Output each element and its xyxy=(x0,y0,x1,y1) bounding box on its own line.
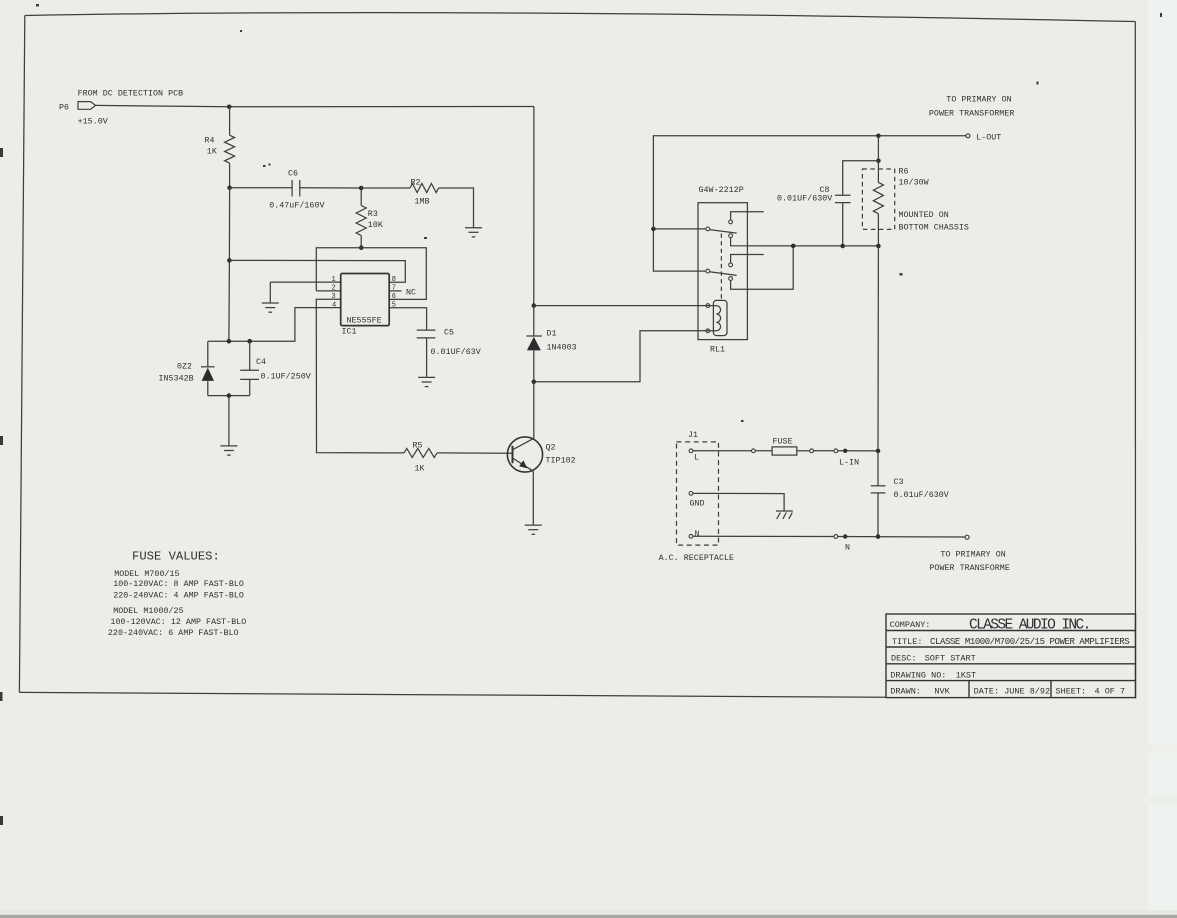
wire R3 to loop xyxy=(360,236,362,248)
wire pin2 stub xyxy=(316,290,340,292)
svg-text:C4: C4 xyxy=(256,358,266,367)
node C8 tap xyxy=(876,159,881,164)
wire C6 to R2/R3 node xyxy=(300,187,361,189)
diode D1 1N4003 xyxy=(527,306,577,439)
wire C8 branch xyxy=(843,161,879,196)
capacitor C4 xyxy=(240,341,311,395)
wire contact NO 1 stub xyxy=(731,212,764,220)
transistor Q2 TIP102 xyxy=(507,437,575,472)
node C4 top xyxy=(247,339,252,344)
splice dot xyxy=(843,534,847,538)
svg-text:R6: R6 xyxy=(899,168,909,177)
svg-text:1K: 1K xyxy=(207,148,217,157)
node relay common xyxy=(651,227,656,232)
splice dot xyxy=(843,449,847,453)
wire coil top xyxy=(534,305,706,307)
wire C8 bottom xyxy=(842,203,844,246)
svg-text:0.01UF/630V: 0.01UF/630V xyxy=(777,193,832,203)
svg-text:220-240VAC: 6 AMP FAST-BLO: 220-240VAC: 6 AMP FAST-BLO xyxy=(108,629,239,638)
wire contact NO 2 stub xyxy=(731,255,764,264)
wire node to R3 xyxy=(360,188,362,206)
svg-text:D1: D1 xyxy=(547,330,557,339)
wire pin1 to ground xyxy=(270,281,340,283)
ground (Q2) xyxy=(525,525,542,534)
splice circle xyxy=(834,535,838,539)
node C8 bottom xyxy=(840,244,845,249)
node rail/zener line xyxy=(227,339,232,344)
wire R6 bottom lead xyxy=(877,214,879,246)
note fuse values xyxy=(108,550,246,639)
wire pin3 down xyxy=(316,299,404,453)
svg-text:NVK: NVK xyxy=(934,687,950,697)
svg-text:100-120VAC: 12 AMP FAST-BLO: 100-120VAC: 12 AMP FAST-BLO xyxy=(111,618,247,627)
wire R5 to Q2 base xyxy=(437,452,512,454)
capacitor C3 xyxy=(877,451,879,486)
svg-text:R3: R3 xyxy=(368,210,378,219)
relay blade 2 xyxy=(710,272,737,276)
wire L to fuse xyxy=(693,450,752,452)
svg-text:R2: R2 xyxy=(411,178,421,187)
zener diode DZ2 xyxy=(159,341,215,395)
ground (C5) xyxy=(418,377,435,386)
border frame xyxy=(19,13,1135,698)
svg-text:TO PRIMARY ON: TO PRIMARY ON xyxy=(946,96,1011,105)
wire main vertical top xyxy=(877,136,879,161)
svg-text:DESC:: DESC: xyxy=(891,654,917,664)
wire contact 2 output riser xyxy=(731,246,794,289)
wire contact 1 output xyxy=(731,238,879,246)
resistor R3 xyxy=(356,206,366,236)
svg-text:DRAWING NO:: DRAWING NO: xyxy=(890,670,946,680)
relay contact pole 2 common xyxy=(706,269,710,273)
svg-text:R5: R5 xyxy=(413,442,423,451)
wire pin4 xyxy=(208,308,341,342)
svg-text:0.1UF/250V: 0.1UF/250V xyxy=(261,371,311,381)
wire node to R2 xyxy=(361,187,410,189)
svg-text:SOFT START: SOFT START xyxy=(925,654,976,664)
svg-text:FUSE: FUSE xyxy=(773,437,793,446)
node D1 anode / coil return / Q2 collector xyxy=(532,380,537,385)
svg-text:7: 7 xyxy=(392,285,396,293)
svg-text:A.C. RECEPTACLE: A.C. RECEPTACLE xyxy=(659,554,734,563)
relay contact out 1 xyxy=(729,234,733,238)
node C6/R2/R3 xyxy=(359,186,364,191)
svg-text:POWER TRANSFORME: POWER TRANSFORME xyxy=(929,564,1009,573)
svg-text:6: 6 xyxy=(392,293,396,301)
svg-text:TITLE:: TITLE: xyxy=(892,637,923,647)
svg-text:N: N xyxy=(695,530,700,539)
svg-text:C6: C6 xyxy=(288,169,298,178)
wire rail to R4 xyxy=(229,107,231,135)
wire node to C6 xyxy=(230,187,293,189)
svg-text:1MB: 1MB xyxy=(415,198,430,207)
svg-text:100-120VAC: 8 AMP FAST-BLO: 100-120VAC: 8 AMP FAST-BLO xyxy=(113,580,244,589)
svg-text:J1: J1 xyxy=(688,431,698,440)
svg-text:SHEET:: SHEET: xyxy=(1056,687,1087,697)
wire pin5 to C5 xyxy=(389,308,426,330)
svg-text:1N4003: 1N4003 xyxy=(547,344,577,353)
svg-text:C5: C5 xyxy=(444,329,454,338)
connector P6 xyxy=(59,90,183,127)
wire pin2-pin6 loop xyxy=(316,248,426,300)
svg-text:N: N xyxy=(845,544,850,553)
relay contact out 2 xyxy=(729,277,733,281)
resistor R5 xyxy=(404,448,437,457)
node L-IN / C3 xyxy=(876,449,881,454)
svg-text:Q2: Q2 xyxy=(546,444,556,453)
svg-text:GND: GND xyxy=(690,500,705,509)
ground (pin1) xyxy=(262,282,279,312)
svg-text:10/30W: 10/30W xyxy=(899,178,929,188)
wire GND to chassis xyxy=(693,493,784,511)
svg-text:0.01uF/630V: 0.01uF/630V xyxy=(894,490,949,500)
svg-text:P6: P6 xyxy=(59,104,69,113)
wire L-OUT line xyxy=(653,136,966,229)
terminal GND xyxy=(689,492,693,496)
svg-text:FROM DC DETECTION PCB: FROM DC DETECTION PCB xyxy=(78,90,184,99)
svg-text:8: 8 xyxy=(392,276,396,284)
svg-text:DATE: JUNE 8/92: DATE: JUNE 8/92 xyxy=(974,687,1051,697)
wire relay commons left xyxy=(653,228,706,230)
wire top rail down to D1 node xyxy=(533,107,535,306)
relay coil terminal 2 xyxy=(706,329,710,333)
relay coil terminal 1 xyxy=(706,304,710,308)
wire pin8 Vcc xyxy=(229,260,405,282)
ground (zener/C4) xyxy=(220,396,237,456)
wire main vertical to L-IN xyxy=(877,246,879,451)
svg-text:POWER TRANSFORMER: POWER TRANSFORMER xyxy=(929,110,1015,119)
fuse F1 xyxy=(772,447,797,455)
svg-text:CLASSE AUDIO INC.: CLASSE AUDIO INC. xyxy=(969,618,1090,634)
svg-text:+15.0V: +15.0V xyxy=(78,118,108,127)
relay blade 1 xyxy=(710,230,737,234)
svg-text:IN5342B: IN5342B xyxy=(159,374,194,383)
svg-text:4: 4 xyxy=(332,302,336,310)
relay contact pole 1 common xyxy=(706,227,710,231)
node L-OUT/main vertical xyxy=(876,134,881,139)
svg-text:3: 3 xyxy=(332,293,336,301)
svg-text:2: 2 xyxy=(332,285,336,293)
relay coil RL1 xyxy=(706,300,727,335)
capacitor C8 xyxy=(835,195,851,202)
relay contact NO 2 xyxy=(729,263,733,267)
node R6 bottom / main vertical xyxy=(876,244,881,249)
svg-text:0.01UF/63V: 0.01UF/63V xyxy=(431,347,481,357)
wire rail down xyxy=(228,188,230,261)
op-amp U1 IC1 NE555FE body xyxy=(341,274,390,326)
node rail top xyxy=(227,105,232,110)
splice circle xyxy=(810,449,814,453)
node R3/loop xyxy=(359,245,364,250)
wire P6 to rail and to D1 column xyxy=(96,105,534,106)
svg-text:RL1: RL1 xyxy=(710,346,725,355)
svg-text:MODEL M1000/25: MODEL M1000/25 xyxy=(113,606,183,616)
relay RL1 G4W-2212P box xyxy=(698,203,747,340)
wire zener/C4 bottom xyxy=(208,395,250,397)
svg-text:COMPANY:: COMPANY: xyxy=(890,620,931,630)
wire pin7 NC stub xyxy=(389,290,401,292)
svg-text:TIP102: TIP102 xyxy=(546,457,576,466)
capacitor C6 xyxy=(292,180,300,196)
svg-text:FUSE VALUES:: FUSE VALUES: xyxy=(132,550,220,564)
splice circle xyxy=(834,449,838,453)
svg-text:L-IN: L-IN xyxy=(839,459,859,468)
svg-text:1KST: 1KST xyxy=(956,670,976,680)
node contact outputs xyxy=(791,244,796,249)
svg-text:220-240VAC: 4 AMP FAST-BLO: 220-240VAC: 4 AMP FAST-BLO xyxy=(113,592,244,601)
terminal L-OUT xyxy=(966,134,970,138)
wire C5 to ground xyxy=(426,338,428,377)
chassis ground xyxy=(776,511,793,519)
node R4/C6 xyxy=(227,186,232,191)
ground (R2) xyxy=(465,228,482,237)
svg-text:1K: 1K xyxy=(415,464,425,473)
wire R2 to ground xyxy=(439,188,474,228)
wire rail to zener node xyxy=(228,260,231,341)
wire coil bottom return xyxy=(534,331,706,382)
svg-text:4 OF 7: 4 OF 7 xyxy=(1095,687,1126,697)
svg-text:10K: 10K xyxy=(368,221,383,230)
node bottom xyxy=(227,393,232,398)
wire R6 top lead xyxy=(877,161,879,183)
terminal N xyxy=(689,534,693,538)
node D1 cathode / coil top xyxy=(532,303,537,308)
svg-text:NC: NC xyxy=(406,288,416,297)
terminal N out xyxy=(965,535,969,539)
node N / C3 xyxy=(876,534,881,539)
svg-text:0Z2: 0Z2 xyxy=(177,362,192,371)
node rail/pin8 xyxy=(227,258,232,263)
connector J1 dashed box xyxy=(677,442,719,545)
svg-text:0.47uF/160V: 0.47uF/160V xyxy=(269,201,324,211)
wire N line xyxy=(693,535,834,537)
wire Q2 emitter to ground xyxy=(532,471,534,525)
resistor R6 dashed mounting box xyxy=(862,169,894,229)
splice circle xyxy=(752,449,756,453)
svg-text:G4W-2212P: G4W-2212P xyxy=(699,186,744,195)
terminal L xyxy=(689,449,693,453)
wire R4 to C6 node xyxy=(229,163,231,188)
capacitor C5 xyxy=(417,330,436,338)
svg-text:DRAWN:: DRAWN: xyxy=(890,687,921,697)
svg-text:L-OUT: L-OUT xyxy=(976,134,1001,143)
resistor R6 xyxy=(873,182,883,213)
title block xyxy=(886,614,1136,698)
svg-text:MODEL M700/15: MODEL M700/15 xyxy=(114,569,179,579)
svg-text:C3: C3 xyxy=(894,478,904,487)
resistor R4 xyxy=(225,135,235,163)
svg-text:R4: R4 xyxy=(205,137,215,146)
resistor R2 xyxy=(410,184,439,193)
svg-text:BOTTOM CHASSIS: BOTTOM CHASSIS xyxy=(899,224,969,233)
relay contact NO 1 xyxy=(729,220,733,224)
svg-text:IC1: IC1 xyxy=(342,328,357,337)
svg-text:NE555FE: NE555FE xyxy=(347,317,382,326)
svg-text:1: 1 xyxy=(332,276,336,284)
svg-text:TO PRIMARY ON: TO PRIMARY ON xyxy=(940,551,1005,560)
svg-text:L: L xyxy=(694,454,699,463)
svg-text:CLASSE M1000/M700/25/15 POWER: CLASSE M1000/M700/25/15 POWER AMPLIFIERS xyxy=(930,637,1129,647)
svg-text:MOUNTED ON: MOUNTED ON xyxy=(899,211,949,220)
relay linkage (dashed) xyxy=(720,234,722,300)
